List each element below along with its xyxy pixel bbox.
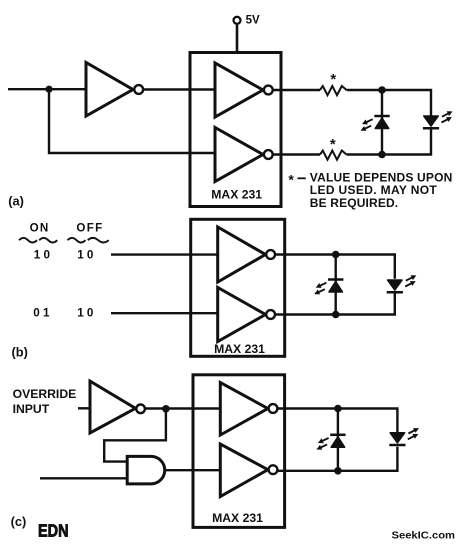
buffer A2 inside MAX231 (a)	[215, 128, 273, 182]
wire: right LED branch bottom (c)	[338, 447, 398, 471]
LED D6 (c, cathode down)	[389, 426, 420, 445]
wire: buffer A2 output to resistor	[273, 153, 320, 155]
svg-text:*: *	[330, 136, 336, 153]
svg-text:OVERRIDE: OVERRIDE	[13, 387, 77, 401]
wire: override input stub	[78, 407, 90, 409]
wire: jog from junction down to AND gate input	[104, 409, 166, 462]
op-amp box U2 MAX 231 (section a)	[190, 53, 281, 207]
AND gate G1	[127, 456, 165, 484]
note: star footnote text	[288, 170, 452, 209]
svg-text:SeekIC.com: SeekIC.com	[392, 530, 456, 542]
inverter U1 (external, section a)	[86, 63, 143, 117]
buffer B1 inside MAX231 (b)	[218, 227, 275, 282]
node: input junction section a	[45, 86, 52, 93]
op-amp box U3 MAX 231 (section b)	[191, 219, 285, 356]
label: OFF column header	[68, 222, 109, 243]
wire: resistor R2 to node	[347, 153, 383, 155]
wire: left LED branch (b)	[335, 255, 337, 315]
resistor R2 (starred)	[320, 136, 347, 160]
wire: left LED branch (a)	[381, 90, 383, 155]
svg-text:*: *	[288, 172, 294, 188]
node: bottom LED node (b)	[332, 311, 340, 319]
svg-text:EDN: EDN	[38, 520, 69, 540]
wire: right LED branch (b)	[336, 255, 395, 279]
buffer B2 inside MAX231 (b)	[218, 288, 275, 342]
buffer C2 inside MAX231 (c)	[220, 444, 277, 497]
svg-text:BE REQUIRED.: BE REQUIRED.	[310, 196, 398, 210]
LED D1 (a, cathode up)	[359, 116, 389, 133]
LED D2 (a, cathode down)	[423, 109, 454, 128]
wire: input line section a	[8, 88, 86, 90]
label: row2 logic values	[33, 307, 94, 320]
resistor R1 (starred)	[320, 71, 347, 95]
wire: right LED branch bottom (a)	[382, 129, 431, 155]
wire: buffer A1 output to resistor	[273, 89, 320, 91]
node: bottom LED node (c)	[334, 467, 342, 475]
svg-text:(c): (c)	[11, 514, 27, 529]
svg-text:INPUT: INPUT	[13, 402, 50, 416]
wire: AND output to MAX231 (c)	[165, 469, 221, 471]
label: OVERRIDE INPUT	[13, 387, 77, 416]
node: top LED node (c)	[334, 405, 342, 413]
wire: inverter output to MAX231 pin	[143, 88, 215, 90]
wire: right LED branch (a)	[382, 90, 431, 116]
svg-text:MAX 231: MAX 231	[214, 342, 265, 356]
LED D4 (b, cathode down)	[387, 273, 418, 292]
wire: left LED branch (c)	[337, 409, 339, 471]
label (a)	[8, 194, 24, 209]
LED D3 (b, cathode up)	[313, 280, 343, 297]
node: override junction	[162, 405, 170, 413]
5V supply terminal	[234, 14, 260, 53]
wire: C2 output to LED node	[277, 470, 338, 472]
svg-text:0 1: 0 1	[33, 307, 50, 320]
buffer A1 inside MAX231 (a)	[215, 63, 273, 117]
wire: right LED branch bottom (b)	[336, 293, 395, 315]
op-amp box U5 MAX 231 (section c)	[193, 375, 285, 528]
svg-text:ON: ON	[30, 222, 50, 235]
svg-text:1 0: 1 0	[77, 307, 94, 320]
wire: resistor R1 to node	[347, 89, 383, 91]
wire: inverter output to MAX231 (c)	[145, 407, 220, 409]
wire: junction down to lower buffer input	[49, 89, 215, 153]
watermark SeekIC.com	[392, 530, 456, 542]
svg-text:1 0: 1 0	[34, 249, 51, 262]
node: top LED node (b)	[332, 251, 340, 259]
wire: lower AND input from left	[40, 477, 127, 479]
wire: row1 input to MAX231 (b)	[111, 253, 218, 255]
node: top LED node (a)	[378, 86, 386, 94]
label EDN	[38, 520, 69, 540]
wire: B2 output to LED node	[275, 313, 336, 315]
label: row1 logic values	[34, 249, 94, 262]
svg-text:5V: 5V	[246, 14, 260, 26]
wire: B1 output to LED node	[275, 253, 336, 255]
label (c)	[11, 514, 27, 529]
buffer C1 inside MAX231 (c)	[220, 383, 277, 436]
node: bottom LED node (a)	[378, 151, 386, 159]
svg-text:(a): (a)	[8, 194, 24, 209]
svg-text:MAX 231: MAX 231	[212, 511, 263, 525]
svg-text:OFF: OFF	[76, 222, 103, 235]
label: ON column header	[19, 222, 57, 243]
svg-text:(b): (b)	[12, 345, 28, 360]
wire: right LED branch (c)	[338, 409, 398, 433]
LED D5 (c, cathode up)	[315, 435, 345, 452]
svg-text:1 0: 1 0	[77, 249, 94, 262]
wire: row2 input to MAX231 (b)	[111, 312, 218, 314]
label (b)	[12, 345, 28, 360]
wire: C1 output to LED node	[277, 407, 338, 409]
svg-text:*: *	[330, 71, 336, 88]
svg-text:MAX 231: MAX 231	[211, 188, 262, 202]
inverter U4 (section c)	[90, 381, 145, 433]
